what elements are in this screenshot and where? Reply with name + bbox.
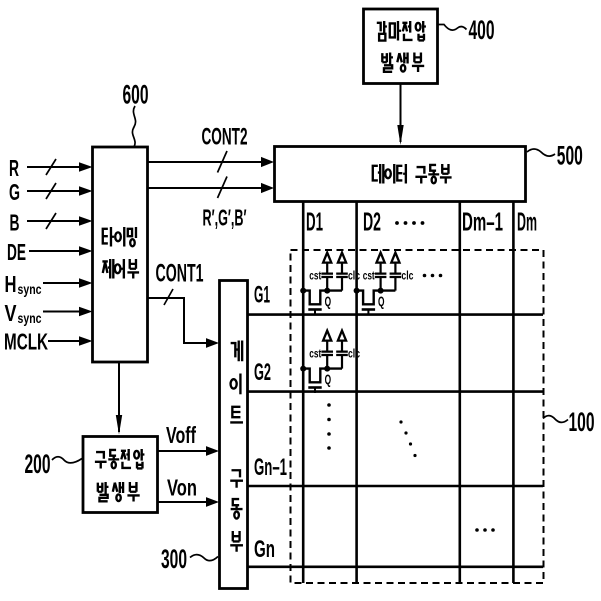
CONT1 bus slash	[164, 289, 173, 305]
input Hsync label	[5, 271, 42, 297]
svg-text:CONT2: CONT2	[202, 124, 248, 151]
leader squiggle from 200	[52, 457, 82, 463]
arrowhead Voff	[206, 446, 219, 456]
ellipsis between D2 and Dm-1	[395, 221, 424, 225]
svg-text:D2: D2	[363, 207, 381, 237]
svg-text:sync: sync	[18, 310, 42, 326]
input R bus slash	[46, 159, 56, 175]
svg-text:200: 200	[25, 449, 51, 479]
svg-text:MCLK: MCLK	[4, 329, 48, 355]
diagonal ellipsis center of panel	[399, 420, 416, 457]
svg-text:Gn: Gn	[254, 536, 275, 563]
wire Voff	[158, 450, 206, 452]
svg-text:D1: D1	[306, 207, 323, 237]
leader squiggle to 400	[439, 25, 467, 31]
svg-text:Voff: Voff	[166, 422, 196, 448]
svg-text:100: 100	[569, 407, 595, 437]
svg-text:G1: G1	[254, 282, 270, 309]
input G arrowhead	[79, 186, 93, 196]
gate driver text 구동부 (vertical)	[230, 470, 243, 552]
timing controller text 타이밍	[103, 227, 136, 247]
wire R'G'B'	[148, 187, 261, 189]
gate line Gn-1	[248, 485, 543, 488]
leader squiggle to 100	[543, 416, 568, 423]
input DE arrowhead	[79, 246, 93, 256]
arrowhead CONT2	[261, 157, 274, 167]
timing controller text 제어부	[102, 259, 139, 279]
input Hsync arrowhead	[79, 278, 93, 288]
svg-text:600: 600	[123, 80, 149, 110]
data line Dm	[512, 202, 515, 583]
svg-text:400: 400	[469, 15, 495, 45]
arrowhead CONT1	[206, 338, 219, 348]
leader squiggle to 500	[527, 149, 555, 156]
svg-text:B: B	[10, 210, 20, 236]
arrowhead gamma to data driver	[397, 125, 403, 145]
wire timing to 200 box	[118, 362, 120, 432]
gamma text 감마전압	[377, 21, 426, 41]
input G bus slash	[46, 183, 56, 199]
leader squiggle from 300	[190, 555, 218, 561]
input DE wire	[29, 250, 80, 252]
pixel circuit at D1/G2	[300, 331, 360, 393]
ellipsis bottom row	[475, 528, 495, 532]
arrowhead R'G'B'	[261, 183, 274, 193]
input MCLK arrowhead	[79, 336, 93, 346]
data driver text 데이터 구동부	[373, 164, 452, 184]
ellipsis right of pixel row 1	[423, 274, 443, 278]
input R wire	[27, 166, 80, 168]
wire gamma to data driver	[400, 84, 402, 142]
gate line Gn	[248, 565, 543, 568]
panel dashed outline 100	[291, 250, 544, 583]
svg-text:Dm–1: Dm–1	[462, 207, 503, 237]
gamma box	[364, 9, 438, 84]
svg-text:CONT1: CONT1	[156, 260, 204, 288]
gate driver text 게이트 (vertical)	[230, 341, 243, 423]
pixel circuit at D1/G1	[300, 253, 360, 315]
arrowhead Von	[206, 497, 219, 507]
svg-text:Gn–1: Gn–1	[254, 454, 287, 481]
svg-text:300: 300	[161, 544, 187, 574]
svg-text:V: V	[5, 300, 18, 326]
input R arrowhead	[79, 162, 93, 172]
svg-text:R′,G′,B′: R′,G′,B′	[203, 205, 247, 231]
vertical ellipsis below pixel column	[327, 403, 331, 450]
wire CONT2	[148, 161, 261, 163]
CONT2 bus slash	[218, 151, 228, 173]
leader squiggle from 600	[132, 106, 135, 147]
gate line G2	[248, 390, 543, 393]
svg-text:sync: sync	[18, 281, 42, 297]
R'G'B' bus slash	[218, 177, 228, 199]
svg-text:Von: Von	[167, 475, 197, 501]
svg-text:G: G	[9, 179, 20, 205]
svg-text:DE: DE	[7, 239, 26, 265]
input B wire	[27, 220, 80, 222]
pixel circuit at D2/G1	[354, 253, 414, 315]
input MCLK wire	[48, 340, 80, 342]
timing controller box	[93, 147, 148, 362]
svg-text:H: H	[5, 271, 17, 297]
input B bus slash	[46, 213, 56, 229]
input Hsync wire	[43, 282, 80, 284]
svg-text:G2: G2	[254, 359, 271, 386]
gamma text 발생부	[382, 53, 424, 73]
input G wire	[27, 190, 80, 192]
200 box text 구동전압	[95, 449, 145, 469]
gate line G1	[248, 313, 543, 316]
200 box text 발생부	[98, 482, 140, 502]
data line D1	[302, 202, 305, 583]
200 box	[83, 437, 158, 513]
gate driver box	[220, 281, 248, 589]
input Vsync wire	[43, 311, 80, 313]
input Vsync label	[5, 300, 42, 326]
wire CONT1	[148, 298, 206, 343]
data driver box	[275, 147, 526, 202]
data line Dm-1	[458, 202, 461, 583]
arrowhead into 200 box	[116, 415, 122, 435]
svg-text:Dm: Dm	[517, 207, 537, 237]
input Vsync arrowhead	[79, 307, 93, 317]
svg-text:500: 500	[557, 141, 583, 171]
data line D2	[355, 202, 358, 583]
svg-text:R: R	[9, 155, 19, 181]
input B arrowhead	[79, 216, 93, 226]
wire Von	[158, 501, 206, 503]
